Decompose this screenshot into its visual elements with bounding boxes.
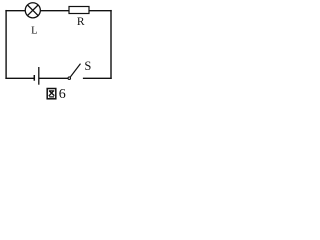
caption 图 drawn as strokes	[47, 89, 56, 99]
battery cell: short negative plate	[33, 75, 35, 81]
wire top-left segment	[6, 10, 25, 12]
resistor R	[69, 7, 89, 14]
svg-text:L: L	[31, 26, 37, 37]
wire bottom-right segment	[84, 77, 111, 79]
wire lamp to resistor	[41, 10, 70, 12]
battery cell: long positive plate	[38, 67, 40, 85]
wire switch to battery	[39, 77, 68, 79]
wire battery to bottom-left corner	[6, 77, 34, 79]
switch S blade	[70, 64, 80, 77]
wire left vertical	[5, 11, 7, 79]
lamp L	[25, 3, 40, 18]
wire resistor to top-right corner	[89, 10, 111, 12]
svg-text:6: 6	[59, 87, 66, 102]
svg-text:S: S	[84, 59, 91, 73]
wire right vertical	[110, 11, 112, 79]
svg-text:R: R	[77, 16, 85, 28]
switch S pivot	[68, 77, 71, 80]
